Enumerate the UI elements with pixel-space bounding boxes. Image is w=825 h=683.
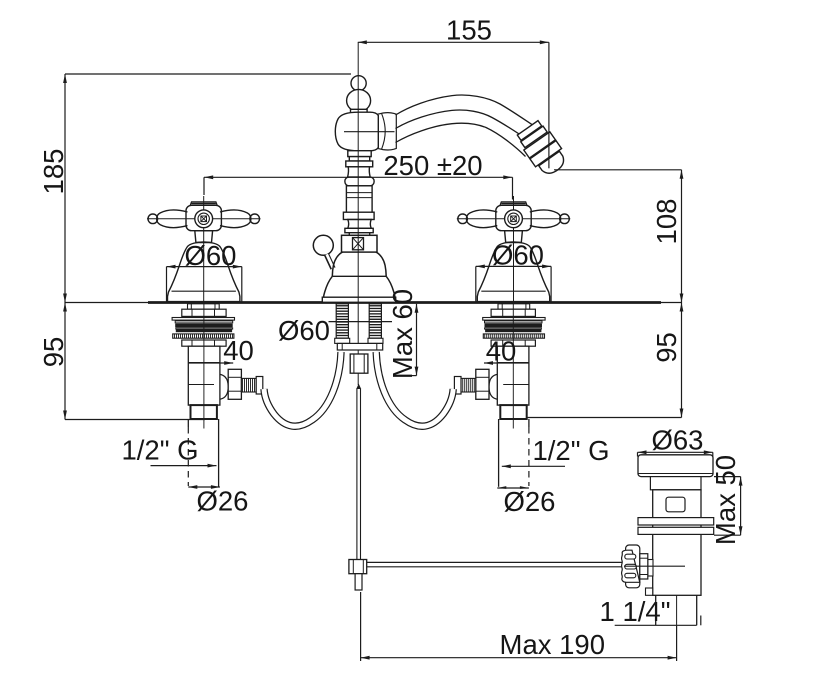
connector pin bbox=[355, 574, 362, 590]
dim 108 and 95 right vertical bbox=[651, 170, 683, 418]
svg-text:40: 40 bbox=[486, 336, 517, 367]
svg-text:Ø60: Ø60 bbox=[278, 315, 330, 346]
dim 40 left bbox=[188, 335, 254, 366]
diverter box with cross bbox=[342, 235, 378, 252]
ext line left 95 bottom bbox=[65, 419, 205, 421]
svg-text:Max 190: Max 190 bbox=[500, 629, 605, 660]
dim Ø26 right bbox=[497, 486, 555, 517]
spout top outline bbox=[396, 95, 540, 129]
mounting deck line bbox=[65, 302, 682, 304]
drain washer 2 bbox=[638, 527, 714, 534]
label 1/2 G left bbox=[121, 435, 216, 468]
body midline bbox=[344, 131, 395, 133]
ext line top of faucet bbox=[65, 73, 351, 75]
svg-text:Ø26: Ø26 bbox=[197, 486, 249, 517]
left cross handle bbox=[147, 196, 261, 302]
column ring 1 bbox=[348, 151, 371, 157]
drain body bbox=[653, 490, 701, 596]
svg-text:1 1/4": 1 1/4" bbox=[600, 596, 671, 627]
top ball finial bbox=[351, 76, 366, 91]
drain washer 1 bbox=[638, 518, 714, 525]
column ring 4 bbox=[343, 212, 374, 219]
dim 185 and 95 left vertical bbox=[38, 74, 69, 420]
dim Ø63 drain bbox=[638, 425, 713, 457]
left valve under-deck assembly bbox=[172, 304, 341, 487]
svg-text:40: 40 bbox=[223, 335, 254, 366]
dim Max 190 bottom bbox=[361, 592, 677, 661]
dim Ø60 left handle bbox=[167, 240, 242, 302]
handle hub bbox=[186, 205, 221, 230]
tee hex nut bbox=[228, 369, 241, 399]
right valve under-deck assembly bbox=[376, 304, 545, 487]
lever handle ball bbox=[313, 235, 333, 255]
column ring 5 bbox=[345, 228, 373, 232]
tee threads bbox=[241, 378, 256, 392]
svg-text:155: 155 bbox=[446, 15, 492, 46]
dim Max 60 deck thickness bbox=[387, 289, 418, 379]
handle bell bbox=[168, 242, 240, 302]
handle neck bbox=[195, 231, 213, 243]
drain neck bbox=[650, 477, 701, 490]
ext line right 95 bottom bbox=[527, 417, 682, 419]
valve body tube bbox=[188, 346, 220, 405]
handle cap bbox=[190, 202, 217, 206]
flexible hose bbox=[264, 352, 341, 426]
dim 40 right bbox=[484, 336, 529, 367]
drain flange bbox=[638, 455, 713, 477]
dim 155 top bbox=[358, 15, 549, 46]
handle centerline horizontal bbox=[147, 218, 261, 220]
central threaded stud right bbox=[369, 304, 381, 339]
dim 250 +-20 bbox=[204, 150, 513, 200]
collar under balls bbox=[351, 109, 368, 114]
pop-up rod bbox=[356, 384, 361, 560]
svg-text:1/2" G: 1/2" G bbox=[121, 435, 198, 466]
mounting bracket plate bbox=[337, 343, 382, 350]
right arm bbox=[220, 210, 260, 227]
handle centerline vertical bbox=[203, 196, 205, 301]
svg-text:Ø63: Ø63 bbox=[652, 425, 704, 456]
drain centerline bbox=[676, 457, 678, 627]
svg-text:Ø60: Ø60 bbox=[185, 240, 237, 271]
tee dome bbox=[220, 374, 228, 399]
rod connector block bbox=[349, 560, 367, 574]
spout connector collar bbox=[378, 113, 397, 150]
svg-text:108: 108 bbox=[651, 199, 682, 245]
inlet pipe bbox=[188, 419, 218, 487]
svg-text:1/2" G: 1/2" G bbox=[532, 435, 609, 466]
rod entry inside body bbox=[624, 565, 685, 567]
valve centerline below deck bbox=[203, 304, 205, 429]
hub screw circles bbox=[195, 210, 213, 228]
gasket black band 2 bbox=[176, 329, 232, 332]
overflow window bbox=[666, 497, 685, 512]
gasket line bbox=[175, 321, 233, 323]
faucet bell base upper tier bbox=[332, 252, 386, 276]
drain tailpipe bbox=[656, 595, 697, 625]
left arm bbox=[148, 210, 188, 227]
central threaded stud left bbox=[336, 304, 348, 339]
aerator on spout end bbox=[515, 119, 571, 180]
column ring 2 bbox=[349, 157, 369, 161]
faucet main body bbox=[335, 112, 378, 151]
body bottom step bbox=[646, 588, 653, 595]
stud nut right bbox=[368, 338, 383, 343]
dim Ø26 left bbox=[188, 485, 248, 516]
tee collar bbox=[256, 377, 263, 395]
column torus bbox=[345, 177, 374, 186]
svg-text:95: 95 bbox=[38, 337, 69, 368]
column neck bbox=[349, 233, 369, 236]
faucet centerline bbox=[357, 42, 359, 385]
column ring 3 bbox=[346, 161, 373, 167]
ext line 155 right to aerator bbox=[548, 42, 550, 168]
spout middle line bbox=[396, 110, 532, 142]
lock nut bbox=[191, 405, 217, 419]
wide washer bbox=[172, 318, 234, 321]
knurled adjuster wheel bbox=[622, 545, 653, 588]
label 1 1/4 inch bbox=[600, 596, 701, 627]
column vase bbox=[348, 167, 371, 177]
gasket black band 1 bbox=[175, 324, 233, 328]
faucet bell rim band bbox=[322, 297, 395, 302]
right cross handle bbox=[457, 196, 571, 302]
gasket line 2 bbox=[176, 328, 233, 329]
shank hex nut bbox=[182, 309, 226, 316]
dim Max 50 drain bbox=[710, 455, 743, 545]
pop-up rod square nut bbox=[350, 354, 368, 373]
svg-text:Ø26: Ø26 bbox=[504, 486, 556, 517]
svg-text:95: 95 bbox=[651, 332, 682, 363]
column vase 2 bbox=[348, 220, 371, 229]
ext line 108 aerator bbox=[554, 169, 682, 171]
label 1/2 G right bbox=[502, 435, 610, 468]
lower hex nut bbox=[182, 340, 226, 346]
label Ø60 center body bbox=[278, 315, 392, 346]
shank stub bbox=[188, 304, 220, 309]
lever stem bbox=[327, 254, 334, 268]
dim Ø60 right handle bbox=[476, 240, 551, 302]
svg-text:185: 185 bbox=[38, 149, 69, 195]
faucet bell base lower tier bbox=[324, 276, 396, 297]
column straight section bbox=[346, 186, 372, 212]
stud nut left bbox=[335, 338, 350, 343]
svg-text:250 ±20: 250 ±20 bbox=[383, 150, 482, 181]
svg-text:Max 50: Max 50 bbox=[710, 455, 741, 545]
horizontal actuating rod bbox=[367, 562, 622, 566]
threaded band bbox=[173, 334, 234, 338]
svg-text:Max 60: Max 60 bbox=[387, 289, 418, 379]
spout bottom outline bbox=[396, 123, 526, 156]
svg-text:Ø60: Ø60 bbox=[492, 240, 544, 271]
second ball bbox=[347, 89, 371, 111]
